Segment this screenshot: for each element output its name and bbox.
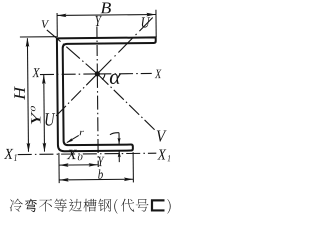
t arrows bbox=[118, 138, 121, 145]
X1 axis bbox=[18, 153, 157, 154]
label B bbox=[101, 2, 111, 13]
r leader bbox=[67, 135, 79, 142]
dimension Y0 (centroid distance) bbox=[43, 75, 46, 152]
label Y (top) bbox=[95, 16, 102, 26]
X axis bbox=[40, 73, 152, 74]
label X (left) bbox=[32, 68, 40, 77]
dimension B (flange width, top) bbox=[57, 14, 155, 17]
label X1 (right) bbox=[157, 150, 166, 160]
label Y0 (rotated) bbox=[31, 111, 40, 124]
label b bbox=[98, 169, 103, 178]
U axis bbox=[97, 18, 153, 74]
label X1 (left) bbox=[4, 149, 13, 159]
label V (bottom right) bbox=[157, 131, 167, 142]
Y0 arrows bbox=[42, 75, 46, 84]
label V (top left) bbox=[42, 20, 50, 28]
r arrow bbox=[66, 138, 73, 143]
channel section outline bbox=[57, 37, 157, 151]
label Y (bottom) bbox=[98, 157, 104, 166]
caption: 冷弯不等边槽钢(代号[) bbox=[10, 199, 171, 214]
label X0 bbox=[67, 150, 77, 159]
V axis bbox=[47, 29, 98, 74]
alpha arc bbox=[102, 74, 105, 80]
dimension b (bottom flange width) bbox=[59, 178, 133, 181]
Y axis bbox=[96, 26, 98, 73]
dimension H (section height, left) bbox=[27, 38, 28, 151]
thickness callout t at bottom flange end bbox=[110, 133, 119, 163]
label U (bottom left) bbox=[45, 113, 55, 125]
label X (right) bbox=[155, 70, 162, 79]
H arrows bbox=[26, 38, 30, 47]
label r bbox=[80, 131, 84, 135]
label H (rotated) bbox=[14, 86, 25, 100]
X0 arrows bbox=[59, 163, 68, 167]
B arrows bbox=[57, 14, 66, 18]
label alpha bbox=[110, 74, 121, 84]
centroid bbox=[95, 71, 100, 76]
b arrows bbox=[59, 178, 68, 182]
label U (top right) bbox=[142, 17, 150, 27]
dimension X0 (centroid distance, bottom) bbox=[59, 164, 98, 166]
